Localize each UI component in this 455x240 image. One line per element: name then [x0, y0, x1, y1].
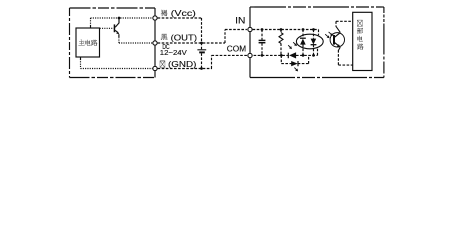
svg-text:12~24V: 12~24V [160, 50, 187, 57]
svg-text:(GND): (GND) [168, 59, 197, 69]
svg-text:IN: IN [235, 16, 245, 26]
svg-text:(OUT): (OUT) [171, 32, 198, 42]
svg-text:(Vcc): (Vcc) [171, 8, 196, 18]
svg-text:COM: COM [227, 44, 246, 53]
